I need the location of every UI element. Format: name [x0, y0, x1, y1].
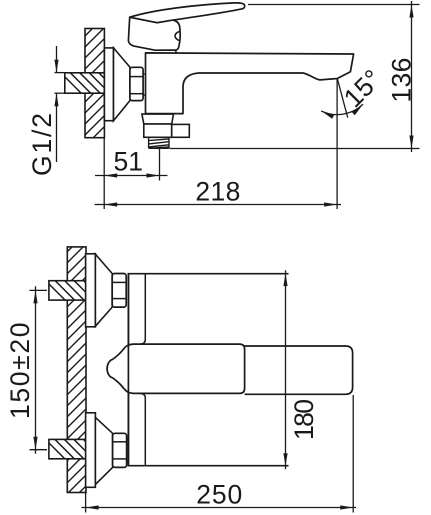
cartridge neck under body, top view: [142, 114, 174, 124]
dimension 250 left arrowhead: [86, 505, 99, 509]
diverter block, top view: [144, 124, 172, 137]
escutcheon cone, top view: [114, 48, 131, 121]
dimension 51 left arrowhead: [104, 173, 117, 177]
dimension G1/2 lower tick at pipe bottom: [55, 92, 67, 94]
dimension line 51: [95, 175, 168, 177]
handle base corner drop line, top view: [175, 50, 177, 53]
diverter block right part, top view: [172, 124, 190, 137]
dimension line 150±20: [35, 286, 37, 454]
dimension line 250: [82, 507, 357, 509]
escutcheon flange plate, top view: [104, 48, 113, 121]
upper inlet pipe (cross-hatched section), bottom view: [43, 278, 104, 301]
15 degree angle arc: [321, 104, 363, 114]
extension line from shower outlet axis: [159, 149, 161, 181]
handle pivot arc, top view: [175, 31, 180, 40]
hex connection nut, top view: [130, 67, 145, 100]
handle lever, top view: [130, 3, 245, 23]
dimension 136 top arrowhead: [409, 5, 413, 18]
extension tick at upper pipe axis: [30, 289, 48, 291]
handle base, top view: [128, 17, 180, 50]
dimension 180 top arrowhead: [283, 273, 287, 286]
extension line from lever end, bottom view: [352, 395, 354, 513]
dimension 250 right arrowhead: [340, 505, 353, 509]
extension line from handle top: [248, 4, 420, 6]
dimension 180 bottom arrowhead: [283, 453, 287, 466]
dimension line 136: [411, 1, 413, 152]
dimension 218 right arrowhead: [324, 202, 337, 206]
dimension 218 left arrowhead: [104, 202, 117, 206]
body chamfer line upper segment, bottom view: [140, 274, 146, 344]
svg-text:218: 218: [195, 177, 240, 207]
lower hex nut, bottom view: [113, 433, 127, 467]
extension tick at lower pipe axis: [30, 449, 48, 451]
dimension 136 bottom arrowhead: [409, 136, 413, 149]
extension line from outlet bottom: [170, 148, 420, 150]
svg-text:180: 180: [289, 399, 319, 440]
svg-text:G1/2: G1/2: [27, 113, 57, 176]
dimension G1/2 arrowhead down: [54, 60, 58, 73]
15 degree slant reference line from spout tip: [337, 79, 347, 118]
dimension 150±20 bottom arrowhead: [33, 437, 37, 450]
inlet pipe G1/2 through wall (cross-hatched section), top view: [58, 70, 120, 94]
dimension G1/2 lower leader line: [56, 93, 58, 162]
wall section (hatched), bottom view: [67, 247, 86, 493]
extension line from wall face, bottom view: [85, 490, 87, 513]
body chamfer line lower segment, bottom view: [140, 393, 146, 465]
upper escutcheon cone, bottom view: [95, 254, 112, 326]
lower inlet pipe (cross-hatched section), bottom view: [43, 437, 104, 460]
faucet body and spout silhouette, top view: [146, 53, 354, 114]
svg-text:136: 136: [387, 58, 417, 103]
lower escutcheon flange, bottom view: [86, 413, 96, 488]
dimension G1/2 arrowhead up: [54, 93, 58, 106]
dimension line 180 (on body right edge): [285, 270, 287, 469]
extension line from spout tip (also 15 deg reference): [336, 79, 338, 210]
dimension 51 right arrowhead: [147, 173, 160, 177]
handle base with spout bump, bottom view: [107, 344, 245, 393]
dimension 150±20 top arrowhead: [33, 290, 37, 303]
svg-text:51: 51: [113, 147, 142, 177]
upper escutcheon flange, bottom view: [86, 254, 96, 327]
faucet body, bottom view: [128, 274, 288, 466]
15 degree arc left arrowhead: [321, 111, 334, 119]
upper hex nut, bottom view: [112, 274, 126, 308]
threaded shower outlet, top view: [149, 137, 169, 148]
lower escutcheon cone, bottom view: [95, 417, 112, 484]
15 degree arc right arrowhead: [352, 104, 363, 115]
svg-text:250: 250: [196, 480, 242, 510]
wall section (hatched), top view: [85, 29, 104, 138]
dimension G1/2 upper leader line: [56, 46, 58, 73]
svg-text:150±20: 150±20: [5, 323, 35, 420]
body left edge over bump, bottom view: [127, 274, 129, 466]
handle lever, bottom view: [245, 346, 353, 394]
extension line from wall face, top view: [103, 138, 105, 209]
dimension line 218: [95, 204, 342, 206]
dimension G1/2 upper tick at pipe top: [55, 72, 67, 74]
